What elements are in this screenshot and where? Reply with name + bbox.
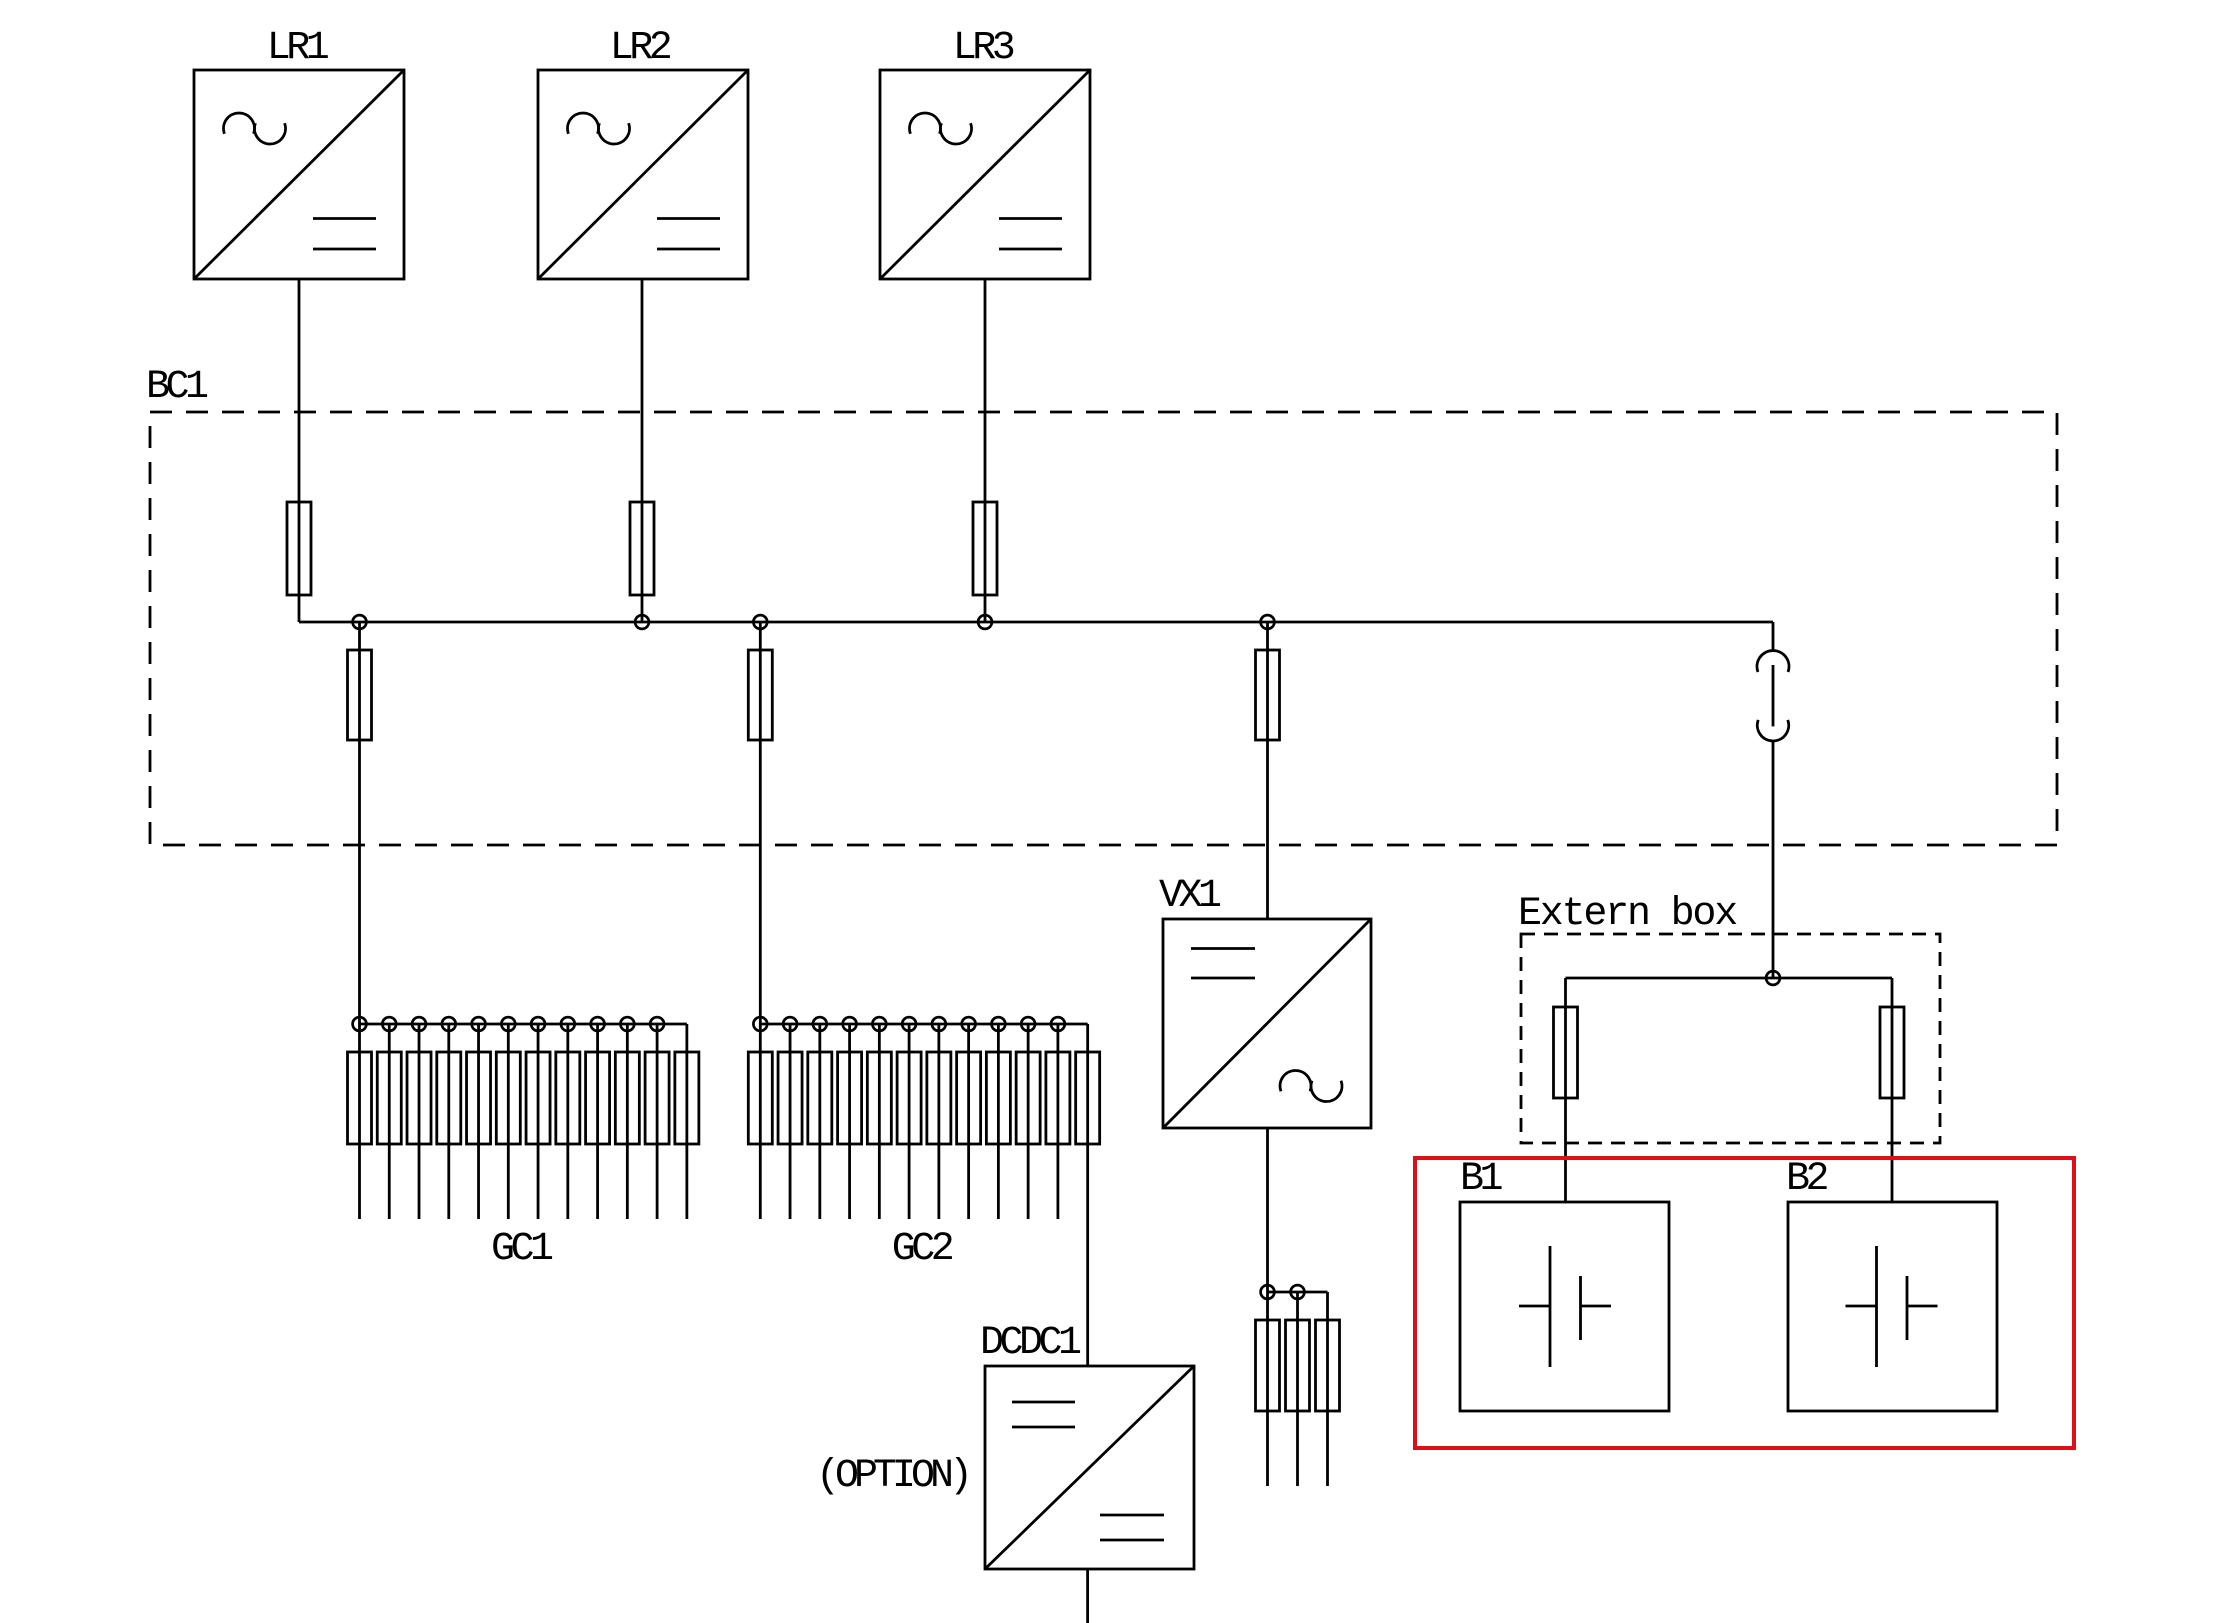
wire GC2.6 tail [908,1024,911,1219]
node GC1 rail 2 [382,1017,396,1031]
node GC1 rail 11 [650,1017,664,1031]
fuse GC2.2 [778,1052,802,1144]
node GC2 rail 4 [843,1017,857,1031]
label GC1 [491,1227,553,1272]
fuse VX1 out 2 [1286,1320,1310,1411]
label BC1 [146,365,208,410]
connector X1 (plug and socket) [1757,651,1789,741]
label LR3 [953,26,1014,71]
wire LR3 to DC bus [984,279,987,622]
label DCDC1 [980,1321,1081,1366]
fuse LR3 branch [973,502,997,595]
fuse GC1.3 [407,1052,431,1144]
svg-text:LR1: LR1 [267,26,329,71]
node GC2 rail 10 [1021,1017,1035,1031]
node GC2 rail 2 [783,1017,797,1031]
wire VX1 out 2 tail [1296,1292,1299,1486]
node GC1 rail 9 [591,1017,605,1031]
wire GC1 rail [360,1024,687,1052]
wire bus to GC1 rail [358,622,361,1219]
fuse GC1.4 [437,1052,461,1144]
wire GC1.10 tail [626,1024,629,1219]
wire GC2.3 tail [818,1024,821,1219]
node extern split [1766,971,1780,985]
node GC1 rail 7 [531,1017,545,1031]
wire VX1 output [1266,1128,1269,1486]
wire GC2 rail [760,1024,1087,1052]
wire GC2.11 tail [1057,1024,1060,1219]
svg-text:GC1: GC1 [491,1227,553,1272]
node GC2 rail 11 [1051,1017,1065,1031]
fuse GC2.4 [838,1052,862,1144]
wire GC2.10 tail [1027,1024,1030,1219]
node GC2 rail 3 [813,1017,827,1031]
highlight box (red) [1415,1158,2074,1448]
node GC1 rail 5 [472,1017,486,1031]
node GC1 rail 3 [412,1017,426,1031]
battery B1 cell symbol [1519,1246,1611,1367]
node VX1 out 2 [1291,1285,1305,1299]
fuse GC1 feed [348,650,372,740]
fuse GC2.7 [927,1052,951,1144]
fuse GC1.6 [496,1052,520,1144]
wire bus to connector [1772,622,1775,651]
wire VX1 out 3 tail [1326,1320,1329,1486]
wire GC1.9 tail [596,1024,599,1219]
wire GC2.8 tail [967,1024,970,1219]
node bus / GC1 tap [353,615,367,629]
converter LR1 (AC/DC) [194,70,404,279]
enclosure BC1 (dashed) [150,412,2057,845]
wire GC1.7 tail [537,1024,540,1219]
fuse GC1.7 [526,1052,550,1144]
wire LR2 to DC bus [641,279,644,622]
wire GC2.9 tail [997,1024,1000,1219]
wire VX1 out link [1268,1292,1328,1320]
wire GC1.11 tail [656,1024,659,1219]
fuse GC1.11 [645,1052,669,1144]
svg-text:LR3: LR3 [953,26,1014,71]
fuse GC2.6 [897,1052,921,1144]
label VX1 [1159,874,1221,919]
node GC2 rail 9 [991,1017,1005,1031]
fuse GC1.10 [615,1052,639,1144]
fuse VX1 feed [1256,650,1280,740]
node GC2 rail 1 [753,1017,767,1031]
label LR1 [267,26,329,71]
svg-text:VX1: VX1 [1159,874,1221,919]
wire LR1 to DC bus [298,279,301,622]
wire connector to extern node [1772,741,1775,978]
enclosure Extern box (dashed) [1521,934,1940,1143]
svg-text:(OPTION): (OPTION) [816,1454,968,1499]
wire GC1.3 tail [418,1024,421,1219]
battery B1 box [1460,1202,1669,1411]
fuse GC2.9 [986,1052,1010,1144]
node bus / GC2 tap [753,615,767,629]
wire DC bus [299,621,1773,624]
fuse GC2.5 [867,1052,891,1144]
label GC2 [892,1227,953,1272]
wire GC2.4 tail [848,1024,851,1219]
fuse GC1.1 [348,1052,372,1144]
wire GC2.7 tail [937,1024,940,1219]
converter VX1 (DC/AC) [1163,919,1371,1128]
fuse GC1.12 [675,1052,699,1144]
wire extern split rail [1566,977,1893,980]
node bus / LR3 [978,615,992,629]
fuse LR2 branch [630,502,654,595]
node GC2 rail 8 [962,1017,976,1031]
fuse GC2.11 [1046,1052,1070,1144]
fuse GC2.10 [1016,1052,1040,1144]
label LR2 [610,26,671,71]
fuse extern right [1880,1007,1904,1098]
node GC2 rail 7 [932,1017,946,1031]
wire GC1.4 tail [447,1024,450,1219]
node GC1 rail 10 [620,1017,634,1031]
wire bus to VX1 [1266,622,1269,919]
svg-text:BC1: BC1 [146,365,208,410]
svg-text:B1: B1 [1460,1157,1503,1202]
wire GC2.2 tail [789,1024,792,1219]
wire GC2.5 tail [878,1024,881,1219]
fuse GC2 feed [748,650,772,740]
wire GC2.12 to DCDC1 [1086,1052,1089,1366]
node bus / LR2 [635,615,649,629]
svg-text:B2: B2 [1786,1157,1828,1202]
node GC2 rail 5 [872,1017,886,1031]
fuse GC1.9 [586,1052,610,1144]
fuse GC1.5 [467,1052,491,1144]
battery B2 cell symbol [1846,1246,1938,1367]
wire GC1.5 tail [477,1024,480,1219]
wire GC1.8 tail [566,1024,569,1219]
svg-text:GC2: GC2 [892,1227,953,1272]
wire extern left to B1 [1564,978,1567,1202]
node GC1 rail 1 [353,1017,367,1031]
node bus / VX1 tap [1261,615,1275,629]
fuse GC2.1 [748,1052,772,1144]
fuse VX1 out 1 [1256,1320,1280,1411]
wire GC1.12 tail [685,1052,688,1219]
fuse GC1.2 [377,1052,401,1144]
node GC1 rail 6 [501,1017,515,1031]
converter DCDC1 (DC/DC, option) [985,1366,1194,1569]
fuse VX1 out 3 [1316,1320,1340,1411]
fuse extern left [1554,1007,1578,1098]
label B1 [1460,1157,1503,1202]
fuse GC1.8 [556,1052,580,1144]
label B2 [1786,1157,1828,1202]
fuse GC2.3 [808,1052,832,1144]
node VX1 out 1 [1261,1285,1275,1299]
label Extern box [1518,892,1737,937]
label (OPTION) [816,1454,968,1499]
svg-text:DCDC1: DCDC1 [980,1321,1081,1366]
battery B2 box [1788,1202,1997,1411]
node GC2 rail 6 [902,1017,916,1031]
fuse GC2.12 [1076,1052,1100,1144]
wire extern right to B2 [1891,978,1894,1202]
wire GC1.2 tail [388,1024,391,1219]
node GC1 rail 8 [561,1017,575,1031]
wire bus to GC2 rail [759,622,762,1219]
wire DCDC1 output [1086,1569,1089,1623]
fuse LR1 branch [287,502,311,595]
converter LR3 (AC/DC) [880,70,1090,279]
fuse GC2.8 [957,1052,981,1144]
svg-text:LR2: LR2 [610,26,671,71]
converter LR2 (AC/DC) [538,70,748,279]
wire GC1.6 tail [507,1024,510,1219]
node GC1 rail 4 [442,1017,456,1031]
svg-text:Extern box: Extern box [1518,892,1737,937]
